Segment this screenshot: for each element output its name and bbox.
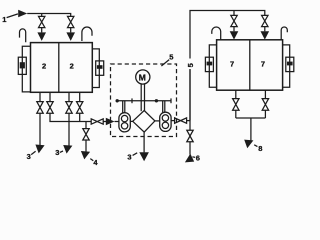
sight gauge body, tank T1 left	[18, 57, 26, 74]
vent gooseneck, tank T1 left	[20, 29, 26, 42]
valve A (left tank fill valve, left)	[39, 16, 45, 27]
suction shut-off valve V6 (horizontal)	[91, 119, 103, 124]
riser pipe middle segment	[189, 70, 191, 121]
outflow arrow 4	[81, 151, 90, 159]
pump P1 gear circle lower	[121, 123, 127, 129]
pump P1 gear circle upper	[121, 115, 127, 121]
drain valve V2	[47, 102, 53, 114]
pipe: top feed header of left tank	[27, 14, 70, 17]
pipe: valve C to arrow	[233, 27, 235, 32]
svg-text:5: 5	[169, 52, 173, 61]
leader line for second 3	[60, 151, 63, 152]
pipe: tank T1 outlet stub 2	[49, 92, 51, 101]
outflow arrow 6	[185, 154, 194, 163]
fill valve C (right tank, left)	[231, 15, 237, 26]
leader line for label 1	[7, 14, 18, 18]
motor letter M	[139, 72, 146, 82]
label 1	[2, 15, 6, 24]
central valve block diamond	[133, 111, 155, 133]
svg-text:2: 2	[42, 61, 46, 70]
sight gauge piping, tank T1 right	[92, 49, 99, 88]
label 7 (left compartment)	[230, 59, 234, 68]
svg-text:7: 7	[230, 59, 234, 68]
leader line for first 3	[31, 151, 35, 154]
leader line for label 5	[161, 60, 169, 66]
svg-text:3: 3	[55, 148, 59, 157]
svg-text:8: 8	[258, 144, 262, 153]
label 4	[93, 158, 98, 167]
leader line for label 6	[192, 156, 195, 159]
pump P2 gear circle lower	[162, 122, 168, 128]
sight gauge body, tank T1 right	[96, 61, 104, 75]
pipe: pump P2 outlet stub	[171, 120, 175, 122]
pipe: stem to valve C	[233, 11, 235, 16]
leader line for label 8	[254, 145, 257, 147]
pump suction arrow into unit 5	[106, 118, 115, 126]
vent gooseneck, tank T2 left	[212, 27, 221, 40]
pump unit enclosure 5 (dashed)	[111, 64, 177, 137]
svg-text:M: M	[139, 72, 146, 82]
pipe: tank T2 outlet stub right	[264, 90, 266, 98]
outflow arrow 8	[244, 140, 253, 149]
drain valve V9	[233, 99, 239, 111]
tank T2 divider	[249, 40, 251, 90]
pipe: diamond drain down	[143, 132, 145, 152]
label 3 (second)	[55, 148, 59, 157]
manifold end tick	[170, 98, 172, 103]
manifold junction dot	[155, 99, 158, 102]
sight gauge float band, tank T2 left	[207, 62, 213, 66]
pipe: tank T1 outlet stub 3	[68, 92, 70, 101]
vent gooseneck, tank T2 right	[281, 27, 287, 40]
svg-text:1: 1	[2, 15, 6, 24]
sight gauge float band, tank T1 left	[20, 62, 25, 68]
flow arrow into tank compartment 7 (left)	[230, 31, 239, 39]
pipe: tank T1 outlet stub 1	[39, 92, 41, 101]
riser pipe upper segment (to right tank header)	[190, 11, 265, 121]
manifold end bullet	[116, 99, 119, 102]
drain valve V4	[77, 102, 83, 114]
pump P1 discharge double pipe	[122, 101, 124, 113]
pipe: valve B to arrow	[70, 28, 72, 33]
drain valve V5	[83, 129, 89, 140]
pipe: valve V4 down to suction run	[79, 113, 81, 121]
pipe: branch down from junction to valve V5	[85, 122, 87, 129]
pump P2 gear circle upper	[162, 115, 168, 121]
label 7 (right compartment)	[261, 59, 265, 68]
discharge valve V7 (horizontal)	[175, 118, 187, 123]
pipe: drain line to arrow 3b	[68, 113, 70, 146]
flow arrow into tank compartment 7 (right)	[261, 31, 270, 39]
leader line for third 3	[133, 153, 138, 156]
svg-text:3: 3	[127, 152, 131, 161]
pipe: tank T2 outlet stub left	[235, 90, 237, 98]
sight gauge piping, tank T2 right	[283, 45, 290, 87]
flow arrow into tank compartment 2 (left)	[37, 32, 46, 41]
manifold tick 1	[131, 98, 133, 103]
tank T1 divider	[58, 43, 60, 93]
svg-text:2: 2	[70, 61, 74, 70]
pipe: valve A to arrow	[41, 28, 43, 33]
svg-text:7: 7	[261, 59, 265, 68]
svg-text:6: 6	[196, 153, 200, 162]
rotated label 5 on riser	[186, 63, 195, 67]
label 3 (first)	[27, 152, 31, 161]
pipe: valve V8 to arrow 6	[189, 142, 191, 155]
drain valve V1	[37, 102, 43, 114]
pipe: valve D to arrow	[264, 27, 266, 32]
pipe: pump P1 to valve block	[130, 120, 133, 122]
pipe: tank T1 outlet stub 4	[79, 92, 81, 101]
vent gooseneck, tank T1 right	[82, 27, 92, 41]
riser gap break for rotated label	[186, 59, 195, 70]
label 6	[196, 153, 200, 162]
drain valve V8	[187, 130, 193, 142]
label 2 (left compartment)	[42, 61, 46, 70]
pipe: tank T2 collector run	[236, 117, 266, 119]
pipe: stem to valve A	[41, 14, 43, 17]
pump P1 body (gear pump pill)	[119, 113, 130, 132]
tank T2 (right reservoir)	[217, 40, 283, 90]
motor U1 circle	[136, 70, 150, 84]
sight gauge float band, tank T2 right	[287, 62, 293, 66]
pipe: diamond to pump P2	[155, 120, 160, 122]
flow arrow into tank compartment 2 (right)	[66, 32, 75, 41]
pipe: riser down to valve V8	[189, 121, 191, 131]
svg-text:5: 5	[186, 63, 195, 67]
pump P2 discharge double pipe	[162, 101, 164, 113]
outflow arrow 3a	[35, 145, 44, 154]
pipe: stub to pump P1	[115, 121, 119, 123]
pipe: valve V7 to riser	[187, 120, 190, 122]
pipe: valve V10 down	[264, 110, 266, 118]
pipe: valve V9 down	[235, 110, 237, 118]
label 2 (right compartment)	[70, 61, 74, 70]
pipe: valve V5 to arrow 4	[85, 140, 87, 152]
sight gauge piping, tank T1 left	[22, 46, 30, 92]
pipe: drain line to arrow 3a	[39, 113, 41, 145]
outflow arrow 3b	[63, 145, 72, 154]
sight gauge body, tank T2 left	[205, 57, 213, 71]
pipe: collector down to arrow 8	[250, 118, 252, 141]
label 5 (enclosure)	[169, 52, 173, 61]
motor shaft double line	[140, 84, 142, 111]
manifold pipe inside unit 5	[117, 100, 171, 102]
outflow arrow 3c	[139, 152, 149, 161]
pipe: suction run from valve V2	[50, 113, 91, 121]
pump P2 body (gear pump pill)	[160, 112, 171, 131]
leader line for label 4	[90, 159, 93, 161]
fill valve D (right tank, right)	[262, 15, 268, 26]
valve B (left tank fill valve, right)	[68, 16, 74, 27]
label 8	[258, 144, 262, 153]
sight gauge body, tank T2 right	[286, 57, 294, 71]
drain valve V3	[66, 102, 72, 114]
sight gauge piping, tank T2 left	[209, 45, 216, 87]
inlet arrow 1	[18, 10, 27, 17]
pipe: valve V6 to pump inlet arrow	[103, 121, 106, 123]
tank T1 (left reservoir)	[31, 43, 93, 93]
svg-text:3: 3	[27, 152, 31, 161]
drain valve V10	[262, 99, 268, 111]
sight gauge float band, tank T1 right	[97, 65, 103, 69]
label 3 (third)	[127, 152, 131, 161]
